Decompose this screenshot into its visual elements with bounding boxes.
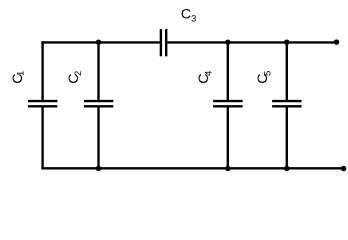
wire C2 branch vertical upper [97, 42, 99, 100]
wire C4 branch vertical lower [227, 107, 229, 168]
capacitor C2 [84, 101, 114, 106]
wire top rail left segment (left corner to C3 left plate) [41, 41, 159, 43]
node junction C5 bottom [284, 166, 290, 172]
svg-text:C2: C2 [66, 71, 83, 84]
wire C1 branch vertical lower [41, 107, 43, 169]
wire C5 branch vertical upper [286, 42, 288, 100]
wire C2 branch vertical lower [97, 107, 99, 168]
wire C4 branch vertical upper [227, 42, 229, 100]
node junction C2 bottom [96, 166, 102, 172]
wire top rail right segment (C3 right plate to right terminal) [167, 41, 336, 43]
node terminal top right [334, 39, 340, 45]
node junction C4 bottom [225, 166, 231, 172]
node junction C5 top [284, 39, 290, 45]
svg-text:C4: C4 [196, 71, 213, 84]
capacitor C3 [161, 29, 166, 56]
capacitor C5 [272, 101, 302, 106]
svg-text:C1: C1 [10, 71, 26, 84]
capacitor C4 [213, 101, 243, 106]
svg-text:C5: C5 [255, 71, 272, 84]
wire C5 branch vertical lower [286, 107, 288, 168]
wire C1 branch vertical upper [41, 41, 43, 100]
wire bottom rail [41, 167, 343, 169]
svg-text:C3: C3 [181, 6, 196, 23]
capacitor C1 [28, 101, 58, 106]
node junction C4 top [225, 39, 231, 45]
node junction C2 top [96, 39, 102, 45]
node terminal bottom right [341, 166, 347, 172]
